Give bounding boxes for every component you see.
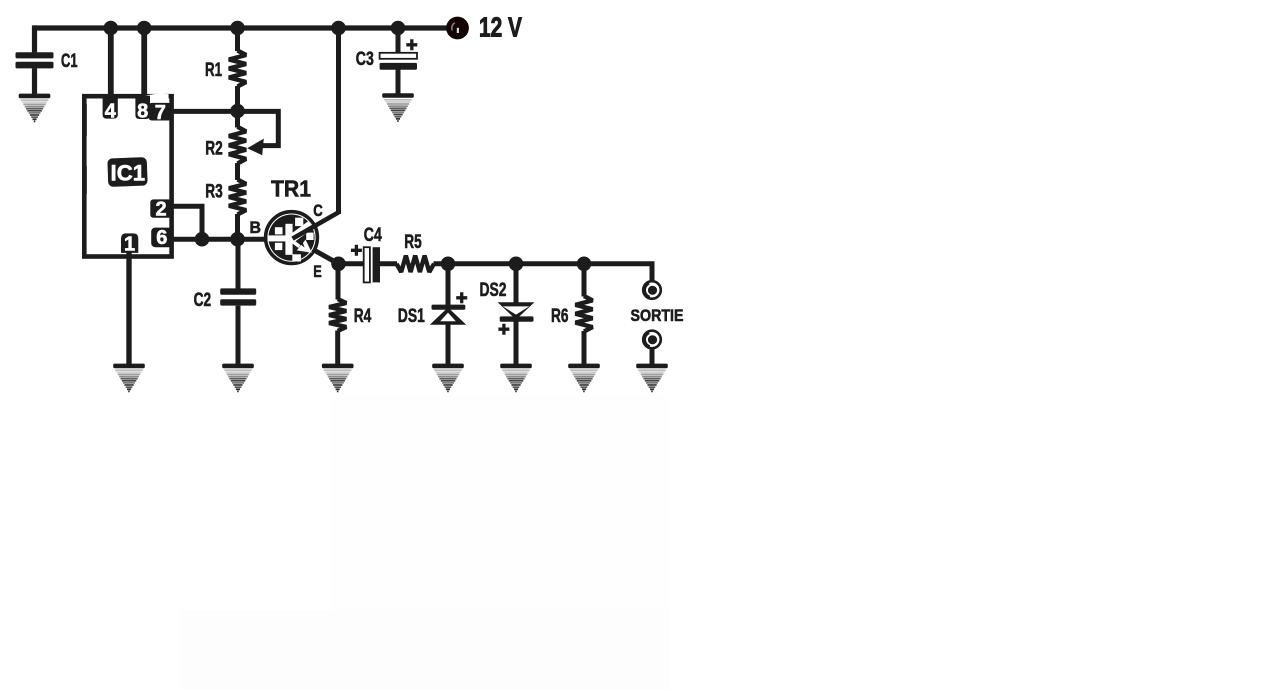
resistor R2 (potentiometer): [229, 127, 246, 164]
IC1 name plate: [107, 157, 147, 187]
junction: rail / C3: [391, 21, 406, 36]
wire: R6 to ground: [582, 331, 587, 365]
svg-text:C1: C1: [61, 51, 78, 72]
wire: rail corner down to C1: [32, 25, 37, 52]
terminal: +12V input: [446, 17, 469, 40]
wire: R3 to base node: [235, 214, 240, 239]
diode DS2: [498, 302, 535, 319]
connector: SORTIE bottom jack: [642, 330, 662, 350]
junction: pin2/pin6 line: [195, 232, 210, 247]
ground (below C2): [222, 364, 254, 393]
svg-text:R3: R3: [205, 182, 223, 203]
wire: R1 to node: [235, 86, 240, 111]
svg-text:R2: R2: [205, 139, 223, 160]
ground (below C3): [382, 93, 414, 122]
svg-text:B: B: [250, 218, 262, 237]
wire: pin 7 to R1/R2 node: [171, 109, 238, 114]
wire: emitter node to R4: [336, 264, 341, 300]
svg-text:7: 7: [155, 102, 166, 124]
junction: R5/DS1 node: [441, 257, 456, 272]
pin 4 pad: [103, 96, 118, 119]
wire: R2 to R3: [235, 163, 240, 180]
diode DS1: [432, 305, 466, 310]
svg-text:R5: R5: [404, 232, 422, 253]
wire: pin 6 to transistor base: [172, 237, 267, 242]
capacitor C3 (electrolytic): [380, 53, 417, 59]
C3 plus sign: [406, 39, 417, 50]
ground (below DS1): [432, 364, 464, 393]
pin 8 pad: [135, 96, 150, 119]
svg-text:DS1: DS1: [398, 306, 425, 327]
wire: emitter diagonal: [315, 251, 339, 264]
wire: collector diagonal: [293, 212, 339, 238]
ground (below R4): [322, 364, 354, 393]
wire: pin 1 to ground: [126, 252, 131, 365]
svg-text:IC1: IC1: [111, 161, 146, 186]
wire: rail to pin 4: [108, 28, 114, 98]
wire: emitter node to C4: [339, 261, 364, 266]
wire: C4 to R5: [380, 261, 397, 266]
junction: R3/base node: [230, 232, 245, 247]
junction: emitter node: [331, 257, 346, 272]
wire: bottom jack to ground: [650, 349, 655, 365]
svg-text:C2: C2: [194, 290, 212, 311]
svg-text:R4: R4: [354, 306, 372, 327]
junction: DS2 node: [509, 257, 524, 272]
wire: R4 to ground: [335, 331, 340, 365]
transistor TR1: [266, 212, 318, 264]
potentiometer wiper arrowhead: [247, 139, 264, 156]
C4 plus sign: [351, 245, 362, 256]
pin 2 pad: [150, 199, 171, 217]
junction: rail / pin 8 wire: [137, 21, 152, 36]
IC1 top-right white notch: [147, 93, 169, 104]
wire: node to R2: [235, 111, 240, 128]
svg-text:SORTIE: SORTIE: [631, 307, 684, 325]
DS2 plus sign: [498, 324, 509, 335]
svg-text:12 V: 12 V: [479, 12, 522, 43]
resistor R4: [329, 299, 346, 331]
wire: rail to R1: [235, 28, 240, 51]
svg-text:6: 6: [156, 227, 167, 249]
pin 7 pad: [149, 103, 172, 121]
wire: R5 to output rail: [434, 264, 653, 281]
capacitor C2: [220, 288, 256, 294]
ground (below DS2): [500, 364, 532, 393]
ground (below SORTIE): [636, 364, 668, 393]
resistor R3: [229, 180, 246, 215]
wire: base node down to C2: [236, 239, 241, 289]
svg-text:E: E: [313, 262, 322, 281]
DS1 plus sign: [456, 292, 467, 303]
wire: C1 to ground: [32, 68, 37, 94]
capacitor C4 (electrolytic): [364, 247, 370, 282]
wire: node to DS2: [514, 264, 519, 317]
junction: rail / collector wire: [331, 21, 346, 36]
wire: +12V top rail: [34, 25, 451, 30]
wire: rail to C3: [396, 28, 401, 53]
wire: C3 to ground: [396, 70, 401, 95]
svg-text:C3: C3: [356, 49, 374, 70]
resistor R5: [397, 256, 435, 272]
wire: C2 to ground: [236, 306, 241, 365]
op-amp/timer IC1 body: [84, 96, 171, 256]
resistor R6: [575, 296, 592, 332]
svg-text:C: C: [313, 201, 323, 220]
svg-text:C4: C4: [364, 225, 382, 246]
wire: rail to pin 8: [141, 28, 147, 98]
wire: pin 2 jog to pin 6 line: [171, 206, 202, 239]
wire: potentiometer wiper loop: [238, 111, 279, 145]
wire: node to DS1: [446, 264, 451, 305]
svg-text:R6: R6: [551, 306, 569, 327]
ground (below R6): [568, 364, 600, 393]
wire: node to R6: [582, 264, 587, 297]
pin 6 pad: [151, 228, 172, 248]
junction: rail / R1: [230, 21, 245, 36]
IC1 right-edge white notch below pin 7: [161, 116, 169, 126]
ground (below C1): [19, 94, 51, 123]
svg-text:8: 8: [137, 100, 148, 122]
wire: collector up to rail: [336, 28, 341, 214]
svg-text:2: 2: [155, 198, 166, 220]
svg-text:4: 4: [105, 100, 117, 122]
capacitor C1: [16, 52, 54, 58]
wire: DS2 to ground: [514, 322, 519, 365]
svg-text:DS2: DS2: [480, 280, 507, 301]
pin 1 pad: [121, 233, 138, 253]
wire: DS1 to ground: [446, 323, 451, 365]
svg-text:R1: R1: [205, 60, 222, 81]
junction: R1/R2/pin7 node: [230, 104, 245, 119]
ground (below pin 1): [113, 364, 145, 393]
junction: R6 node: [577, 257, 592, 272]
svg-text:TR1: TR1: [271, 175, 311, 201]
junction: rail / pin 4 wire: [104, 21, 119, 36]
connector: SORTIE top jack: [642, 280, 662, 300]
resistor R1: [229, 51, 246, 87]
